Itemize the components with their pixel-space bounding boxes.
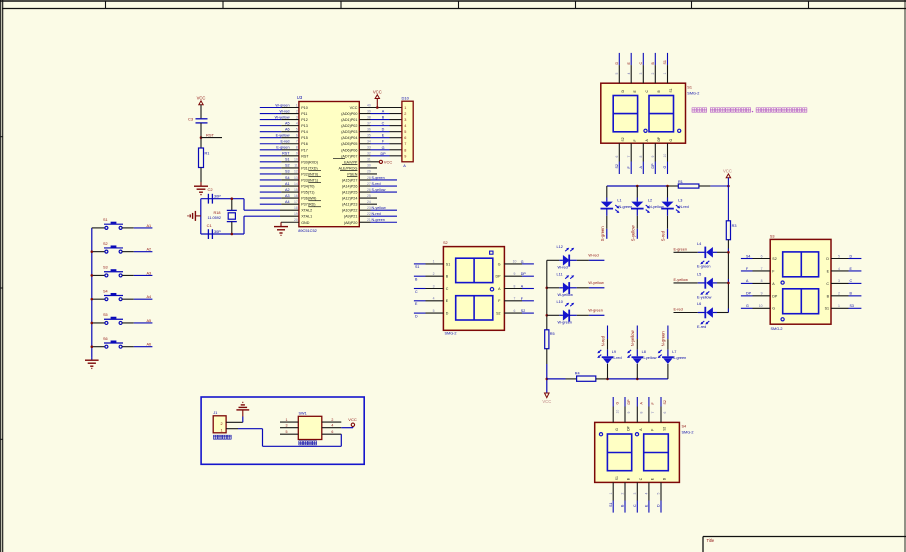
- connector D10: [402, 95, 414, 168]
- pin 10 U3: [281, 158, 299, 162]
- LED L6: [697, 302, 728, 329]
- svg-text:E-red: E-red: [697, 325, 706, 329]
- svg-text:P12: P12: [301, 118, 308, 122]
- pin 34 U3: [359, 140, 371, 144]
- svg-text:35: 35: [367, 134, 371, 138]
- svg-text:S-green: S-green: [372, 176, 385, 180]
- svg-text:8: 8: [761, 279, 763, 283]
- wire net A5: [122, 319, 152, 323]
- pin 15 U3: [281, 188, 299, 192]
- svg-text:27: 27: [367, 182, 371, 186]
- svg-text:P10: P10: [301, 106, 308, 110]
- junction: [636, 378, 639, 381]
- svg-text:E-red: E-red: [280, 140, 289, 144]
- wire S3 left pin 6: [741, 254, 777, 261]
- svg-text:25: 25: [367, 194, 371, 198]
- power symbol VCC (SW1): [348, 417, 357, 426]
- svg-text:A3: A3: [285, 194, 290, 198]
- capacitor C3: [188, 117, 208, 123]
- pin 23 U3: [359, 206, 371, 210]
- svg-text:10: 10: [513, 260, 517, 264]
- pin 26 U3: [359, 188, 371, 192]
- svg-text:29: 29: [367, 170, 371, 174]
- junction: [546, 287, 549, 290]
- svg-text:P32(INT0): P32(INT0): [301, 172, 318, 176]
- wire S3 right pin 2: [827, 292, 862, 299]
- svg-text:C: C: [415, 290, 418, 294]
- svg-text:5: 5: [838, 254, 840, 258]
- svg-text:3: 3: [296, 115, 298, 119]
- wire S2 left pin 1: [414, 260, 450, 270]
- svg-text:S1: S1: [663, 60, 667, 64]
- svg-text:11: 11: [294, 164, 298, 168]
- wire: [699, 185, 729, 187]
- svg-text:D10: D10: [402, 95, 410, 100]
- svg-text:6: 6: [331, 430, 333, 434]
- svg-text:S3: S3: [285, 170, 290, 174]
- svg-text:10: 10: [615, 410, 619, 414]
- svg-text:P16: P16: [301, 142, 308, 146]
- svg-text:RST: RST: [282, 152, 290, 156]
- svg-text:(AD6)P06: (AD6)P06: [341, 148, 357, 152]
- crystal R18 11.0592: [208, 199, 237, 234]
- decimal points (S2): [490, 251, 494, 291]
- svg-text:W-red: W-red: [280, 109, 290, 113]
- wire net DP: [371, 152, 402, 156]
- wire net E-red: [260, 140, 290, 144]
- ground (reset): [194, 182, 213, 195]
- svg-text:E-yellow: E-yellow: [697, 295, 712, 299]
- wire S1 bottom pin 9: [651, 136, 661, 174]
- svg-text:S2: S2: [663, 400, 667, 404]
- pin 8 U3: [281, 146, 299, 150]
- wire net N-green: [371, 218, 398, 222]
- pin 1 SW1: [280, 418, 298, 422]
- wire net W-yellow: [260, 115, 290, 119]
- svg-text:34: 34: [367, 140, 371, 144]
- wire S2 left pin 3: [414, 284, 449, 294]
- pin 28 U3: [359, 176, 371, 180]
- LED L12: [547, 245, 605, 270]
- svg-text:P13: P13: [301, 124, 308, 128]
- wire: [727, 240, 729, 253]
- svg-text:S6: S6: [103, 337, 108, 341]
- svg-text:21: 21: [367, 218, 371, 222]
- wire net S-green: [371, 176, 398, 180]
- pin 1 U3: [281, 103, 299, 107]
- wire net F: [371, 140, 402, 144]
- IC U3 89C51: [297, 95, 360, 233]
- wire S1 bottom pin 10: [663, 139, 673, 175]
- pin 12 U3: [281, 170, 299, 174]
- svg-text:W-green: W-green: [275, 103, 289, 107]
- svg-text:(AD5)P05: (AD5)P05: [341, 142, 357, 146]
- LED L7: [658, 339, 687, 379]
- pin 27 U3: [359, 182, 371, 186]
- svg-text:F: F: [651, 429, 655, 431]
- svg-text:D: D: [826, 257, 829, 261]
- wire net A4: [260, 200, 290, 204]
- svg-text:E-yellow: E-yellow: [276, 134, 290, 138]
- svg-text:1: 1: [663, 73, 667, 75]
- svg-text:N-green: N-green: [619, 205, 633, 209]
- wire net A1: [122, 224, 152, 228]
- svg-text:W-yellow: W-yellow: [588, 281, 604, 285]
- svg-text:4: 4: [296, 121, 298, 125]
- digit right (S4): [644, 434, 669, 471]
- wire: [596, 378, 668, 380]
- svg-text:3: 3: [633, 493, 637, 495]
- svg-text:30: 30: [367, 164, 371, 168]
- svg-text:R1: R1: [678, 180, 683, 184]
- svg-text:A2: A2: [285, 188, 290, 192]
- capacitor C2 30P: [208, 194, 221, 204]
- svg-text:(A8)P20: (A8)P20: [344, 221, 358, 225]
- svg-text:8: 8: [639, 156, 643, 158]
- wire S1 top pin 2: [651, 53, 661, 93]
- svg-text:S5: S5: [103, 313, 108, 317]
- svg-text:2: 2: [433, 272, 435, 276]
- switch S5: [92, 313, 123, 324]
- svg-text:S1: S1: [103, 218, 108, 222]
- svg-text:31: 31: [367, 158, 371, 162]
- svg-text:C: C: [826, 282, 829, 286]
- wire S4 top pin 7: [649, 397, 655, 431]
- svg-text:7: 7: [761, 267, 763, 271]
- svg-text:C2: C2: [208, 187, 214, 192]
- svg-text:R4: R4: [575, 371, 580, 375]
- pin 38 U3: [359, 115, 371, 119]
- svg-text:30P: 30P: [214, 230, 221, 234]
- svg-text:VCC: VCC: [542, 399, 551, 404]
- wire S4 top pin 10: [613, 397, 619, 431]
- svg-text:DP: DP: [496, 275, 502, 279]
- wire: [200, 105, 202, 119]
- LED L11: [547, 272, 605, 297]
- svg-text:32: 32: [367, 152, 371, 156]
- wire RST stub: [201, 137, 222, 139]
- svg-text:17: 17: [294, 200, 298, 204]
- wire S2 right pin 10: [498, 260, 534, 267]
- svg-text:30P: 30P: [214, 195, 221, 199]
- capacitor C1 30P: [207, 223, 222, 239]
- LED L8: [627, 339, 657, 379]
- wire S3 left pin 8: [741, 279, 775, 286]
- svg-text:G: G: [521, 260, 524, 264]
- wire net N-yellow: [371, 206, 398, 210]
- svg-text:N-green: N-green: [372, 218, 385, 222]
- svg-text:VCC: VCC: [373, 89, 382, 94]
- pin 31 U3 EA to VCC: [359, 158, 379, 162]
- svg-text:VCC: VCC: [348, 417, 357, 422]
- svg-text:DP: DP: [521, 272, 527, 276]
- svg-text:S2: S2: [496, 312, 500, 316]
- svg-text:D: D: [446, 312, 449, 316]
- pin 7 U3: [281, 140, 299, 144]
- junction: [727, 251, 730, 254]
- svg-text:A4: A4: [147, 295, 152, 299]
- wire S4 bottom pin 1: [609, 476, 619, 513]
- svg-text:P35(T1): P35(T1): [301, 191, 314, 195]
- wire net A4: [122, 295, 152, 299]
- svg-text:3: 3: [404, 118, 406, 122]
- junction: [606, 378, 609, 381]
- wire S3 right pin 4: [827, 267, 862, 274]
- wire LED bottom rail: [547, 378, 577, 380]
- pin 6 U3: [281, 134, 299, 138]
- svg-text:6: 6: [761, 254, 763, 258]
- svg-text:P11: P11: [301, 112, 307, 116]
- power symbol VCC (EA): [379, 159, 392, 164]
- svg-text:S1: S1: [609, 503, 613, 507]
- svg-text:SMG-2: SMG-2: [445, 332, 457, 336]
- wire net E-yellow: [674, 278, 706, 283]
- svg-text:8: 8: [640, 412, 644, 414]
- svg-text:S-yellow: S-yellow: [372, 188, 386, 192]
- LED L2: [631, 186, 664, 239]
- pin 5 SW1: [280, 430, 298, 434]
- wire: [727, 252, 729, 312]
- wire net E-yellow: [260, 134, 290, 138]
- switch SW1: [298, 412, 322, 445]
- junction: [91, 298, 94, 301]
- svg-text:C3: C3: [188, 117, 194, 122]
- svg-text:VCC: VCC: [384, 159, 393, 164]
- svg-text:8: 8: [404, 148, 406, 152]
- pin 1 J1 wire: [226, 429, 341, 447]
- power section box: [201, 397, 364, 464]
- svg-text:DP: DP: [746, 292, 752, 296]
- junction: [376, 106, 379, 109]
- svg-text:S4: S4: [682, 425, 687, 429]
- pin 40 U3 VCC wire: [359, 103, 402, 107]
- svg-text:D: D: [415, 314, 418, 318]
- pin 39 U3: [359, 109, 371, 113]
- power symbol VCC (reset): [197, 96, 206, 105]
- svg-text:N-red: N-red: [372, 212, 381, 216]
- svg-text:10: 10: [294, 158, 298, 162]
- svg-text:3: 3: [639, 73, 643, 75]
- svg-text:9: 9: [761, 292, 763, 296]
- pin 4 SW1 to VCC: [322, 423, 353, 427]
- svg-text:D: D: [382, 128, 385, 132]
- pin 16 U3: [281, 194, 299, 198]
- svg-text:SMG-2: SMG-2: [682, 431, 694, 435]
- svg-text:7: 7: [296, 140, 298, 144]
- wire S3 left pin 9: [741, 292, 778, 299]
- svg-text:S4: S4: [285, 176, 290, 180]
- svg-text:S1: S1: [285, 158, 290, 162]
- svg-text:P30(RXD): P30(RXD): [301, 160, 318, 164]
- junction: [91, 345, 94, 348]
- digit right (S1): [649, 96, 674, 132]
- node RST: [200, 133, 215, 139]
- svg-text:(A11)P23: (A11)P23: [342, 203, 357, 207]
- svg-text:P37(RD): P37(RD): [301, 203, 315, 207]
- svg-text:L9: L9: [612, 350, 616, 354]
- wire switch rail: [91, 228, 93, 358]
- svg-text:20: 20: [294, 218, 298, 222]
- svg-text:7: 7: [651, 412, 655, 414]
- decimal points (S1): [644, 129, 681, 132]
- svg-text:E-green: E-green: [674, 247, 688, 251]
- svg-text:4: 4: [433, 297, 435, 301]
- svg-text:C: C: [446, 287, 449, 291]
- svg-text:A1: A1: [285, 182, 290, 186]
- svg-text:G: G: [669, 139, 673, 142]
- svg-text:P33(INT1): P33(INT1): [301, 178, 318, 182]
- wire S1 bottom pin 6: [615, 137, 625, 174]
- pin 14 U3: [281, 182, 299, 186]
- svg-text:2: 2: [220, 422, 222, 426]
- svg-text:13: 13: [294, 176, 298, 180]
- svg-text:6: 6: [404, 136, 406, 140]
- svg-text:2: 2: [331, 418, 333, 422]
- wire XTAL2: [244, 209, 299, 211]
- wire net W-red: [260, 109, 290, 113]
- junction: [546, 314, 549, 317]
- wire net E-red: [674, 308, 706, 313]
- svg-text:S-red: S-red: [661, 230, 666, 241]
- wire S1 top pin 1: [663, 53, 673, 93]
- svg-text:9: 9: [514, 272, 516, 276]
- svg-text:P15: P15: [301, 136, 308, 140]
- svg-text:W-yellow: W-yellow: [558, 293, 574, 297]
- svg-text:L8: L8: [642, 350, 646, 354]
- svg-text:(AD0)P00: (AD0)P00: [341, 112, 357, 116]
- svg-text:3: 3: [433, 284, 435, 288]
- wire S4 bottom pin 5: [657, 477, 667, 512]
- junction: [636, 185, 639, 188]
- svg-text:E-green: E-green: [276, 146, 289, 150]
- svg-text:L5: L5: [697, 272, 701, 276]
- pin 4 U3: [281, 121, 299, 125]
- pin 22 U3: [359, 212, 371, 216]
- digit left (S4): [607, 434, 631, 471]
- svg-text:S2: S2: [772, 257, 776, 261]
- svg-text:L6: L6: [697, 302, 701, 306]
- svg-text:SW1: SW1: [299, 412, 307, 416]
- wire net N-red: [371, 212, 398, 216]
- svg-text:RST: RST: [206, 133, 215, 138]
- display S3 SMG-2: [770, 235, 831, 332]
- LED L9: [597, 339, 621, 379]
- wire net E: [371, 134, 402, 138]
- svg-text:5: 5: [404, 130, 406, 134]
- wire net W-green: [260, 103, 290, 107]
- svg-text:5: 5: [615, 73, 619, 75]
- svg-text:6: 6: [296, 134, 298, 138]
- svg-text:(A9)P21: (A9)P21: [344, 215, 358, 219]
- wire: [200, 168, 202, 183]
- svg-text:C1: C1: [207, 223, 213, 228]
- svg-text:EA/VPP: EA/VPP: [344, 160, 358, 164]
- pin 33 U3: [359, 146, 371, 150]
- svg-text:10: 10: [759, 304, 763, 308]
- decimal points (S4): [599, 433, 638, 436]
- svg-text:A: A: [403, 164, 406, 168]
- svg-text:W-red: W-red: [558, 266, 568, 270]
- svg-text:SMG-2: SMG-2: [687, 92, 699, 96]
- switch S1: [92, 218, 123, 229]
- svg-text:N-yellow: N-yellow: [630, 329, 635, 346]
- pin 20 U3 GND: [281, 218, 299, 222]
- svg-text:GND: GND: [301, 221, 310, 225]
- svg-text:C: C: [382, 122, 385, 126]
- wire S2 left pin 4: [414, 297, 449, 307]
- wire S2 right pin 7: [498, 297, 534, 304]
- svg-text:4: 4: [838, 267, 840, 271]
- wire net A6: [260, 127, 290, 131]
- svg-text:1: 1: [220, 429, 222, 433]
- wire net E-green: [674, 247, 706, 252]
- svg-text:E-red: E-red: [674, 308, 683, 312]
- pin 5 U3: [281, 127, 299, 131]
- pin 36 U3: [359, 127, 371, 131]
- svg-text:W-green: W-green: [588, 309, 603, 313]
- svg-text:W-yellow: W-yellow: [275, 115, 290, 119]
- pin 2 SW1: [322, 418, 342, 422]
- power symbol VCC (bottom, inverted): [542, 379, 551, 404]
- svg-text:DP: DP: [627, 425, 631, 430]
- svg-text:4: 4: [404, 124, 406, 128]
- pin 24 U3: [359, 200, 377, 204]
- svg-text:L3: L3: [678, 198, 682, 202]
- svg-text:DP: DP: [380, 152, 386, 156]
- svg-text:9: 9: [296, 152, 298, 156]
- wire S1 top pin 4: [627, 53, 637, 93]
- svg-text:U3: U3: [297, 95, 303, 100]
- wire net S4: [260, 176, 290, 180]
- wire S4 top pin 8: [637, 397, 643, 431]
- svg-text:8: 8: [296, 146, 298, 150]
- wire S4 bottom pin 3: [633, 477, 643, 512]
- svg-text:7: 7: [514, 297, 516, 301]
- wire S2 right pin 9: [496, 272, 534, 279]
- svg-text:P31(TXD): P31(TXD): [301, 166, 317, 170]
- junction: [727, 185, 730, 188]
- svg-text:S-green: S-green: [600, 226, 605, 242]
- svg-text:R3: R3: [732, 224, 737, 228]
- junction: [231, 197, 234, 200]
- svg-text:W-red: W-red: [588, 254, 598, 258]
- svg-text:3: 3: [838, 279, 840, 283]
- wire S1 top pin 5: [615, 53, 625, 93]
- resistor R5: [545, 330, 555, 349]
- pin 21 U3: [359, 218, 371, 222]
- wire S2 right pin 8: [498, 284, 534, 291]
- LED L10: [547, 300, 605, 325]
- svg-text:G: G: [498, 262, 501, 266]
- wire: [546, 349, 548, 379]
- svg-text:2: 2: [651, 73, 655, 75]
- svg-text:L4: L4: [697, 242, 701, 246]
- svg-text:G: G: [615, 428, 619, 431]
- svg-text:1: 1: [838, 304, 840, 308]
- wire S1 bottom pin 8: [639, 139, 649, 175]
- svg-text:E-yellow: E-yellow: [674, 278, 689, 282]
- svg-text:L2: L2: [648, 198, 652, 202]
- wire net B: [371, 116, 402, 120]
- power symbol VCC (LED rail): [723, 169, 732, 186]
- svg-text:S-red: S-red: [372, 182, 381, 186]
- svg-text:D: D: [850, 254, 853, 258]
- svg-text:A6: A6: [147, 343, 152, 347]
- svg-text:8: 8: [514, 284, 516, 288]
- svg-text:4: 4: [627, 73, 631, 75]
- decimal points (S3): [781, 281, 784, 321]
- svg-text:DP: DP: [627, 399, 631, 405]
